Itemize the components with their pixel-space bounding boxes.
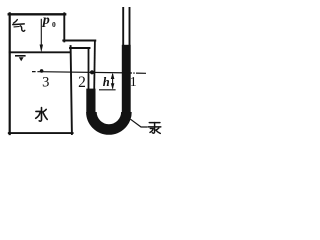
U-tube bend filled with mercury [91,112,126,130]
U-tube right limb outer wall [129,7,131,112]
water surface marker line [15,55,26,57]
tank wall upper-right [63,13,65,41]
U-tube left limb outer wall [88,47,90,112]
h dimension double arrow [111,73,115,90]
label gas (qi) drawn strokes [13,20,25,32]
h extension line at lower mercury level [99,89,116,91]
label mercury (gong) drawn strokes [148,123,160,134]
svg-text:1: 1 [130,75,137,90]
svg-text:h: h [103,75,110,89]
mercury column in left limb [86,89,95,113]
mercury column in right limb [122,45,131,113]
pressure arrow p0 [40,19,43,53]
svg-text:p: p [42,13,50,28]
water surface marker triangle [19,57,24,61]
svg-text:3: 3 [42,75,49,91]
node point 2 dot [90,70,94,74]
svg-text:2: 2 [78,74,86,91]
U-tube left limb inner wall [94,41,95,113]
U-tube right limb inner wall [122,7,124,112]
label p0 [42,13,56,29]
tank wall top [9,13,65,15]
label water (shui) drawn strokes [36,108,48,122]
tank wall left [9,13,11,134]
svg-text:0: 0 [52,20,56,29]
water surface line [10,51,71,53]
pipe top wall [63,39,95,41]
node point 3 dot [40,69,44,73]
isobar datum line through points 3,2,1 [32,72,146,74]
pipe bottom wall [70,47,90,49]
tank wall bottom [9,132,73,134]
leader line to mercury label [131,119,148,127]
tank wall right [71,46,72,134]
